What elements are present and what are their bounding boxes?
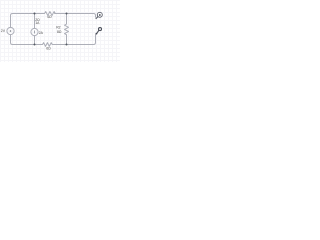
source V1 inner mark <box>10 30 12 32</box>
source I1 inner mark <box>34 31 36 34</box>
resistor R3 (bottom horizontal zigzag) <box>43 43 53 47</box>
wire bottom-right <box>52 34 95 45</box>
svg-text:8Ω: 8Ω <box>57 30 62 34</box>
source V1 (left circle) <box>7 27 14 34</box>
wire top-right segment <box>55 14 96 18</box>
wire branch B vertical bottom <box>66 35 68 45</box>
wire branch B vertical top <box>66 14 68 25</box>
node dot top B <box>66 13 68 15</box>
svg-text:4Ω: 4Ω <box>47 15 52 19</box>
wire branch A vertical top <box>34 14 36 29</box>
source I1 (middle circle) <box>31 28 38 35</box>
svg-text:6Ω: 6Ω <box>46 47 51 51</box>
resistor R1 (top horizontal zigzag) <box>45 12 56 16</box>
svg-text:R2: R2 <box>56 26 60 30</box>
wire branch A vertical bottom <box>34 36 36 45</box>
wire top-left segment <box>11 14 45 28</box>
node dot bottom B <box>66 44 68 46</box>
svg-text:2V: 2V <box>1 29 6 33</box>
resistor R2 (vertical zigzag) <box>65 24 69 35</box>
svg-text:1A: 1A <box>35 21 40 25</box>
probe P1 (top-right magnifier) <box>96 12 103 19</box>
wire bottom-left <box>11 35 43 45</box>
node dot top A <box>34 13 36 15</box>
node dot bottom A <box>34 44 36 46</box>
svg-text:2A: 2A <box>39 31 44 35</box>
probe P2 (bottom-right pointer) <box>96 28 101 34</box>
